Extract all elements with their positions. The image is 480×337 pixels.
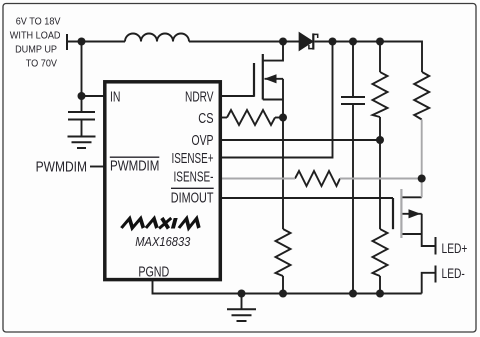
svg-text:IN: IN (110, 87, 120, 104)
svg-text:LED+: LED+ (442, 241, 468, 257)
svg-text:PWMDIM: PWMDIM (36, 158, 87, 175)
svg-text:MAX16833: MAX16833 (135, 234, 190, 249)
svg-text:ISENSE+: ISENSE+ (171, 150, 213, 167)
svg-text:DIMOUT: DIMOUT (171, 189, 214, 206)
svg-text:LED-: LED- (442, 265, 465, 281)
svg-text:TO 70V: TO 70V (26, 58, 58, 70)
svg-text:PWMDIM: PWMDIM (110, 157, 159, 174)
svg-text:CS: CS (198, 109, 213, 126)
svg-text:OVP: OVP (192, 131, 214, 148)
svg-text:NDRV: NDRV (185, 87, 214, 105)
svg-text:WITH LOAD: WITH LOAD (10, 30, 61, 42)
svg-text:6V TO 18V: 6V TO 18V (16, 16, 61, 28)
svg-text:ISENSE-: ISENSE- (174, 167, 214, 185)
svg-text:DUMP UP: DUMP UP (15, 44, 57, 56)
svg-text:PGND: PGND (138, 263, 169, 280)
